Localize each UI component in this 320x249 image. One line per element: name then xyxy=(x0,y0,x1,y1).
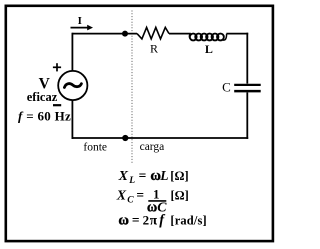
wire inductor to top-right corner xyxy=(226,33,248,35)
svg-text:=: = xyxy=(136,187,144,202)
resistor R xyxy=(137,27,169,39)
svg-text:L: L xyxy=(205,42,213,56)
svg-text:C: C xyxy=(127,195,134,205)
wire left lower (source - to bottom) xyxy=(71,100,73,139)
svg-text:eficaz: eficaz xyxy=(27,90,58,104)
svg-text:carga: carga xyxy=(140,141,165,153)
svg-text:X: X xyxy=(116,188,127,203)
AC source V eficaz xyxy=(58,71,87,100)
inductor L xyxy=(189,34,226,41)
source minus sign xyxy=(53,104,61,106)
svg-text:f = 60 Hz: f = 60 Hz xyxy=(18,108,71,123)
formula XL = wL [ohm] xyxy=(118,168,189,186)
wire left upper (top to source +) xyxy=(71,33,73,71)
svg-text:L: L xyxy=(128,176,135,186)
svg-text:X: X xyxy=(118,169,129,184)
svg-text:R: R xyxy=(150,41,158,55)
svg-text:[Ω]: [Ω] xyxy=(171,188,189,202)
node junction top xyxy=(122,31,128,37)
svg-text:π: π xyxy=(150,213,158,228)
svg-text:I: I xyxy=(78,15,82,27)
svg-text:[Ω]: [Ω] xyxy=(170,169,188,183)
svg-text:=: = xyxy=(139,168,147,183)
svg-text:ω: ω xyxy=(118,213,129,229)
boundary dashed line fonte/carga xyxy=(131,11,133,164)
wire top (source to resistor) xyxy=(72,33,137,35)
svg-text:=: = xyxy=(132,213,140,228)
source plus sign xyxy=(53,63,61,71)
svg-text:[rad/s]: [rad/s] xyxy=(170,214,206,228)
node junction bottom xyxy=(122,135,128,141)
formula w = 2 pi f [rad/s] xyxy=(118,213,206,229)
wire right lower (capacitor to bottom) xyxy=(246,92,248,138)
capacitor C xyxy=(234,85,261,91)
wire between resistor and inductor xyxy=(169,33,191,35)
wire bottom return xyxy=(72,137,249,139)
formula XC = 1/(wC) [ohm] xyxy=(116,186,189,215)
wire right upper (corner to capacitor) xyxy=(246,33,248,84)
svg-text:L: L xyxy=(159,168,168,183)
svg-text:fonte: fonte xyxy=(83,141,107,153)
svg-text:C: C xyxy=(222,79,231,94)
svg-text:2: 2 xyxy=(143,213,150,228)
current arrow I xyxy=(71,15,94,30)
